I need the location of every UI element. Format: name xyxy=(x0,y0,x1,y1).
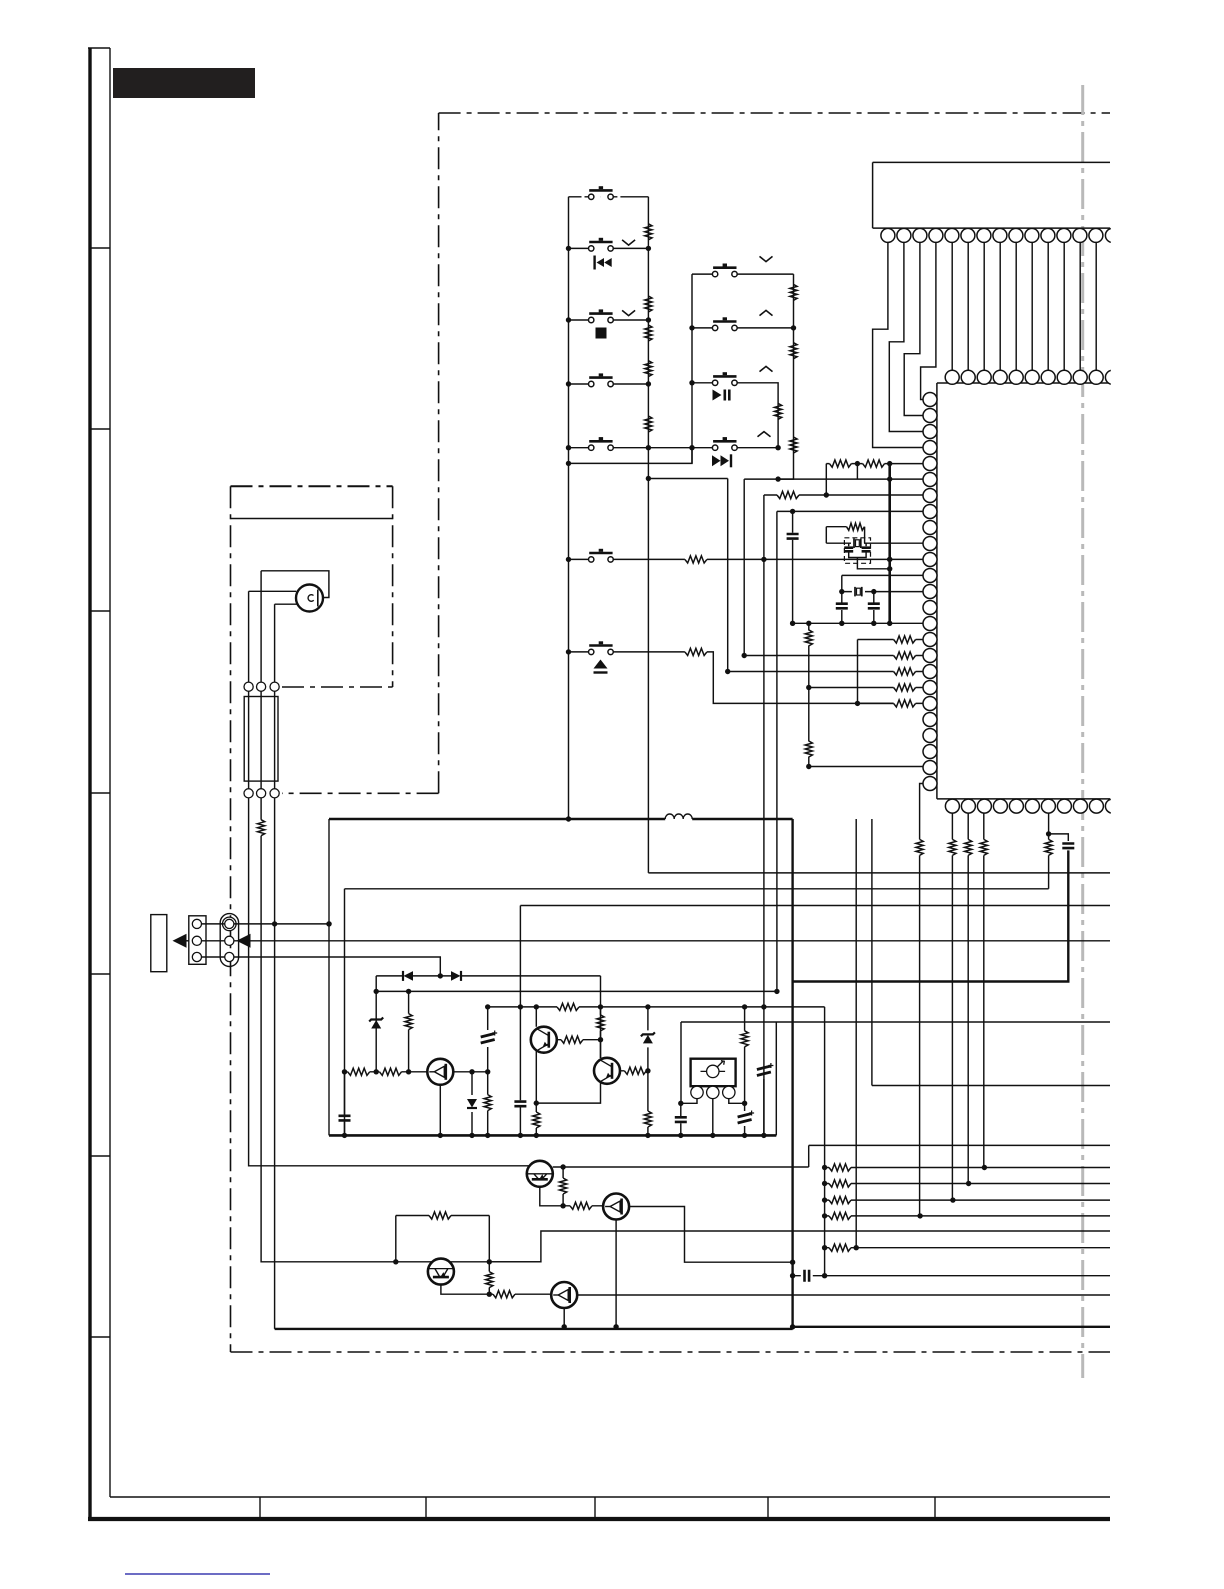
U2 pin 3 xyxy=(913,228,927,242)
ground distribution wire to pin p15 xyxy=(793,622,924,624)
icon prev-track xyxy=(595,256,612,270)
wire U2 pin10 down to IC top pin 6 xyxy=(1031,242,1033,370)
transistor Q5 xyxy=(603,1194,629,1220)
chevron up col2 row2 xyxy=(760,310,773,315)
U1 bottom pin 1 xyxy=(945,799,959,813)
wire col2 node east to IC pin p6 xyxy=(778,478,923,480)
U1 top pin 4 xyxy=(993,370,1007,384)
wire p18 row east of drop xyxy=(728,671,924,673)
node R487 at bus xyxy=(485,1133,490,1138)
front-panel enclosure dash-dot top edge xyxy=(439,112,1110,114)
U1 top pin 1 xyxy=(945,370,959,384)
capacitor C-X2a xyxy=(841,592,843,624)
wire x=871.9 drop from power rail xyxy=(871,819,873,1086)
wire p11 corner down to crystal X2 left xyxy=(841,575,843,591)
node q1 east x472 xyxy=(469,1069,474,1074)
inductor L1 xyxy=(665,814,692,819)
node col2 inner bus jog xyxy=(775,476,780,481)
wire p16 row with corner drop to p20 row xyxy=(858,640,924,704)
CN1b pin 1 outer ring xyxy=(223,917,237,931)
resistor R-487 xyxy=(487,1072,489,1136)
U1 bottom pin 11 (clipped at page edge) xyxy=(1105,799,1119,813)
resistor R-row7 xyxy=(685,648,707,655)
U1 top pin 5 xyxy=(1009,370,1023,384)
node row6 at thick bus xyxy=(887,557,892,562)
wire Q6 emitter down to base row 1294 xyxy=(441,1285,493,1295)
node Q2 emitter junction xyxy=(534,1100,539,1105)
capacitor C-1068 xyxy=(1062,844,1074,849)
U1 left pin 1 xyxy=(923,393,937,407)
node power drop on row1 xyxy=(326,921,331,926)
resistor R-p20 xyxy=(894,700,916,707)
key switch SW6 row wire to IC pin p10 xyxy=(569,558,924,560)
wire U2 pin9 down to IC top pin 5 xyxy=(1015,242,1017,370)
wire CN1 row3 link to diode pair xyxy=(202,957,441,976)
wire U2 pin2 to IC pin3 stair xyxy=(889,242,923,431)
wire Q7 east to margin xyxy=(577,1294,1110,1296)
display connector box U2 xyxy=(873,162,1110,228)
node Q2 base net on x600 xyxy=(598,1037,603,1042)
key switch SW1 xyxy=(589,186,614,199)
tap row 5 resistor to margin xyxy=(825,1247,1110,1249)
wire U1 left pin25 jog down xyxy=(920,784,924,1216)
wire col2 jog west to x=744 drop xyxy=(744,478,778,480)
amp block top border xyxy=(345,888,1049,890)
resistor R-Q3base xyxy=(624,1067,646,1074)
capacitor C-motor-left xyxy=(680,1103,682,1135)
zener ZD1 xyxy=(371,1020,381,1029)
U1 bottom pin 3 xyxy=(977,799,991,813)
resistor R-p16 xyxy=(894,636,916,643)
footer blue link underline xyxy=(125,1573,270,1575)
chevron down col1 row2 xyxy=(622,240,635,245)
wire Q3 base resistor xyxy=(620,1070,648,1072)
node rail x487 xyxy=(485,1004,490,1009)
arrow into jack xyxy=(173,934,187,948)
node R648 at bus xyxy=(645,1133,650,1138)
board-side connector pin 2 xyxy=(257,789,266,798)
capacitor C-520 xyxy=(514,1102,526,1107)
power rail with inductor L1 xyxy=(329,818,793,820)
U1 left pin 3 xyxy=(923,425,937,439)
node C520 at bus xyxy=(518,1133,523,1138)
tap row 2 resistor xyxy=(825,1183,1110,1185)
node rail x536 (Q2 collector) xyxy=(534,1004,539,1009)
bottom title strip thick base xyxy=(88,1517,1110,1521)
crystal X1 line to pin p9 xyxy=(826,542,923,544)
motor box pin 1 xyxy=(691,1086,703,1098)
wire Q7 base resistor xyxy=(515,1293,551,1295)
key switch SW9 row wire xyxy=(692,327,794,329)
U1 top pin 8 xyxy=(1057,370,1071,384)
resistor R-col1-1 xyxy=(645,224,652,240)
oscillator feedback resistor R-osc xyxy=(826,526,846,528)
bottom strip divider 4 xyxy=(767,1497,769,1517)
node col2 row4 right xyxy=(775,445,780,450)
wire p7 line xyxy=(765,494,924,496)
wire Q5 east loop to row 1262 xyxy=(629,1207,793,1263)
node Q1 at bus xyxy=(438,1133,443,1138)
crystal X1 dash box xyxy=(844,538,870,564)
wire Q7 down to ground bus xyxy=(563,1308,565,1327)
node ZD2 at bus xyxy=(469,1133,474,1138)
capacitor C-X2b xyxy=(873,592,875,624)
resistor chain x=808.8 lower resistor xyxy=(808,688,810,767)
U2 pin 13 xyxy=(1073,228,1087,242)
U1 top pin 7 xyxy=(1041,370,1055,384)
node tap5 west xyxy=(822,1245,827,1250)
title block black banner xyxy=(113,68,255,98)
node x=857.5 on p20 row xyxy=(855,701,860,706)
node gnd x=841.8 xyxy=(839,621,844,626)
node cap row west on thick vertical xyxy=(790,1273,795,1278)
resistor R-Q5base xyxy=(570,1202,592,1209)
node tap1 xyxy=(822,1165,827,1170)
tap row 4 resistor xyxy=(825,1215,1110,1217)
CN1b pin 3 xyxy=(225,952,234,961)
tap bus x=824.6 row 1 resistor xyxy=(825,1167,1110,1169)
node col2 row3 left xyxy=(689,380,694,385)
wire Q5 down to ground bus xyxy=(615,1220,617,1327)
wire p20 row east part xyxy=(858,702,924,704)
U1 left pin 4 xyxy=(923,441,937,455)
node Q7 at ground bus xyxy=(562,1324,567,1329)
node on p7 line xyxy=(824,492,829,497)
key switch SW9 xyxy=(712,317,737,330)
resistor R-col1-5 xyxy=(645,416,652,432)
thick bus vertical x=889.7 xyxy=(888,464,891,624)
node left bus at inductor rail xyxy=(566,816,571,821)
front-panel enclosure dash-dot bottom edge xyxy=(231,1351,1111,1353)
U1 top pin 2 xyxy=(961,370,975,384)
bottom title strip top rule xyxy=(110,1496,1110,1498)
node C744 at bus xyxy=(742,1133,747,1138)
wire D2 east corner down xyxy=(600,976,602,1058)
wire jog 1145-1167 xyxy=(808,1145,810,1167)
node col2 left bus row4 xyxy=(689,445,694,450)
motor drive IC box xyxy=(691,1059,736,1087)
U2 pin 10 xyxy=(1025,228,1039,242)
wire mic lead A down to pin xyxy=(260,571,262,682)
key switch SW5 row wire spanning to col2 xyxy=(569,447,779,449)
node col1 row4 left xyxy=(566,381,571,386)
microcontroller IC box U1 xyxy=(937,383,1110,799)
U2 pin 7 xyxy=(977,228,991,242)
key switch SW3 row wire xyxy=(569,319,649,321)
thick wire from C-1068 down and west xyxy=(793,850,1069,981)
crystal X2 xyxy=(855,587,862,597)
resistor R-984 xyxy=(980,839,987,855)
keypad col2 left bus xyxy=(691,274,693,463)
U1 left pin 21 xyxy=(923,713,937,727)
node col1 row7 left xyxy=(566,649,571,654)
U2 pin 12 xyxy=(1057,228,1071,242)
mic connector pin 3 xyxy=(270,682,279,691)
wire keypad drop x=727.7 to p18 row xyxy=(727,479,729,672)
node motor frame at cap row xyxy=(678,1101,683,1106)
zener ZD3 xyxy=(647,1007,649,1071)
CN1b pin 1 xyxy=(225,919,234,928)
resistor R-col2-3 xyxy=(790,437,797,453)
node col1 row2 right xyxy=(646,246,651,251)
U1 left pin 2 xyxy=(923,409,937,423)
key switch SW4 row wire xyxy=(569,383,649,385)
wire p8 corner down (x=776.9 drop) xyxy=(776,511,778,991)
wire mic net3 drop to power bus corner xyxy=(274,798,276,1329)
connector CN1b capsule xyxy=(220,914,238,967)
page frame top stub xyxy=(88,47,110,49)
wire rail east corner down x=824.6 xyxy=(824,1007,826,1276)
supply rail y=1006.9 xyxy=(488,1006,825,1008)
microphone module dash-dot right edge xyxy=(392,486,394,687)
U1 left pin 17 xyxy=(923,649,937,663)
margin line y=1085.5 from x871 drop xyxy=(872,1085,1110,1087)
node y991 x408 xyxy=(406,989,411,994)
resistor R-648 xyxy=(647,1071,649,1136)
resistor R-col2-1 xyxy=(790,284,797,300)
frame section tick 2 xyxy=(90,428,110,430)
wire U2 pin11 down to IC top pin 7 xyxy=(1047,242,1049,370)
margin line y=905.5 with west corner drop xyxy=(520,905,1110,907)
wire mic net1 drop to Q4 row xyxy=(249,798,540,1166)
U1 bottom pin 6 xyxy=(1025,799,1039,813)
resistor R-744 xyxy=(744,1007,746,1103)
resistor R-col2-2 xyxy=(790,343,797,359)
link wire col1-col2 left buses xyxy=(569,448,693,464)
node bus at 559.3 to pin p10 (row6 net) xyxy=(887,557,892,562)
wire CN1 row1 link xyxy=(202,923,330,925)
board-side connector pin 3 xyxy=(270,789,279,798)
key switch SW3 (stop) xyxy=(589,309,614,322)
wire mic terminal C xyxy=(275,603,297,605)
U2 pin 5 xyxy=(945,228,959,242)
frame section tick 7 xyxy=(90,1336,110,1338)
node col1 bus jog xyxy=(646,476,651,481)
wire x600 vertical (D2 net) xyxy=(536,1040,600,1103)
key switch SW2 (prev) xyxy=(589,238,614,251)
node gnd thick bus bottom xyxy=(887,621,892,626)
ground return thick bus y=1326.8 xyxy=(275,1328,793,1330)
wire p5 line (two series resistors) xyxy=(826,463,923,465)
resistor R-408 xyxy=(408,991,410,1071)
resistor R-col1-4 xyxy=(645,361,652,377)
resistor R-600-top xyxy=(600,1007,602,1040)
node tap4 xyxy=(822,1213,827,1218)
wire Q5 base resistor xyxy=(563,1205,603,1207)
output jack rectangle xyxy=(151,915,167,972)
capacitor C-792 upper xyxy=(792,511,794,623)
U2 pin 1 xyxy=(881,228,895,242)
transistor Q1 xyxy=(427,1059,453,1085)
amp block left border xyxy=(344,889,346,1136)
node gnd x=792.6 xyxy=(790,621,795,626)
U1 bottom pin 5 xyxy=(1009,799,1023,813)
crystal X2 line to pin p12 xyxy=(842,591,924,593)
U1 left pin 6 xyxy=(923,473,937,487)
diode pair feed wire xyxy=(376,975,600,977)
resistor R-952 xyxy=(949,839,956,855)
U1 bottom pin 7 xyxy=(1041,799,1055,813)
wire p7 corner down (x=763.9 long drop) xyxy=(763,495,766,1136)
U1 left pin 16 xyxy=(923,633,937,647)
microphone module dash-dot top edge xyxy=(231,485,393,487)
wire U1 bottom pin1 drop xyxy=(951,813,953,1200)
page frame left thick border xyxy=(88,48,91,1520)
motor box pin 3 xyxy=(723,1086,735,1098)
wire p6 stub up to p5 mid node xyxy=(856,464,858,480)
chevron down col1 row3 xyxy=(622,310,635,315)
electrolytic C-487 xyxy=(487,1007,489,1072)
crystal X1 xyxy=(854,538,861,548)
U1 left pin 9 xyxy=(923,521,937,535)
margin line y=873.5 from keypad col1 bus xyxy=(648,872,1110,874)
wire loop west leg xyxy=(395,1216,397,1262)
node base row x563 xyxy=(560,1203,565,1208)
icon eject xyxy=(594,660,608,673)
resistor R-p18 xyxy=(894,668,916,675)
U1 bottom pin 4 xyxy=(993,799,1007,813)
node diode pair center xyxy=(438,973,443,978)
U1 left pin 12 xyxy=(923,569,937,583)
diode D1 (cathode west) xyxy=(404,971,414,981)
margin line y=1145.4 xyxy=(809,1144,1110,1146)
bottom strip divider 3 xyxy=(594,1497,596,1517)
key switch SW10 row wire (play/pause) xyxy=(692,383,778,448)
wire U1 bottom pin2 drop xyxy=(967,813,969,1183)
front-panel enclosure dash-dot left edge upper xyxy=(438,113,440,793)
node tap3 xyxy=(822,1197,827,1202)
resistor R-loop xyxy=(429,1212,451,1219)
wire U2 pin3 to IC pin2 stair xyxy=(904,242,923,415)
frame section tick 3 xyxy=(90,610,110,612)
chevron up col2 row4 xyxy=(758,432,771,437)
wire D1 west corner down xyxy=(375,976,377,1072)
wire motor pin2 down to bus xyxy=(712,1099,714,1136)
wire thick vertical x=792.6 to ground bus xyxy=(791,819,793,1327)
node amp left at base row xyxy=(342,1069,347,1074)
U1 left pin 22 xyxy=(923,729,937,743)
node tap2 xyxy=(822,1181,827,1186)
page frame left inner rule xyxy=(109,48,111,1497)
ground bus of amp block xyxy=(329,1134,776,1137)
U1 bottom pin 2 xyxy=(961,799,975,813)
wire motor pin3 to right node xyxy=(729,1099,745,1104)
wire loop east leg xyxy=(488,1216,490,1262)
ribbon conductor 2 xyxy=(260,691,262,788)
ribbon conductor 1 xyxy=(248,691,250,788)
wire U2 pin1 to IC pin4 stair xyxy=(873,242,924,447)
icon next-track xyxy=(712,454,731,467)
front-panel enclosure dash-dot left edge lower xyxy=(230,486,232,1352)
motor box pin 2 xyxy=(707,1086,719,1098)
node motor right x744 xyxy=(742,1101,747,1106)
node X2 left xyxy=(839,589,844,594)
keypad col1 left bus xyxy=(568,197,570,819)
chevron up col2 row3 xyxy=(760,366,773,371)
wire mic lead C down to pin xyxy=(274,604,276,682)
U1 left pin 24 xyxy=(923,761,937,775)
coupling cap row y=1275.7 xyxy=(793,1275,1110,1277)
resistor R-p5-b xyxy=(863,460,885,467)
U2 pin 11 xyxy=(1041,228,1055,242)
node x1048 split xyxy=(1046,831,1051,836)
board-side connector pin 1 xyxy=(244,789,253,798)
CN1 pin 3 xyxy=(192,952,201,961)
node loop east at row 1262 xyxy=(487,1259,492,1264)
U1 top pin 6 xyxy=(1025,370,1039,384)
node p8 line at x=792.6 xyxy=(790,509,795,514)
wire U2 pin4 to IC pin1 stair xyxy=(921,242,936,399)
key switch SW7 (eject) xyxy=(589,641,614,654)
margin line y=1022 from motor frame xyxy=(681,1021,1110,1023)
wire motor pin1 to left node xyxy=(681,1099,697,1104)
capacitor C-amp-left xyxy=(344,1072,346,1136)
wire U2 pin8 down to IC top pin 4 xyxy=(999,242,1001,370)
resistor R-row6 xyxy=(685,556,707,563)
key switch SW5 xyxy=(589,437,614,450)
wire X1 caps common to bus xyxy=(849,552,890,569)
node p5 line at thick bus top xyxy=(887,461,892,466)
capacitor C-X1a xyxy=(848,543,850,546)
key switch SW8 row wire xyxy=(692,273,794,275)
U1 bottom pin 8 xyxy=(1057,799,1071,813)
wire Q4 row east xyxy=(553,1166,563,1168)
U2 pin 14 xyxy=(1089,228,1103,242)
wire Q1 emitter down to bus xyxy=(439,1085,441,1136)
wire osc right bend xyxy=(864,527,866,544)
wire amp bus riser east end xyxy=(775,1022,777,1135)
page fold dash-dot gray line xyxy=(1081,85,1084,1378)
node Q5 line at thick vertical xyxy=(790,1260,795,1265)
wire U1 bottom pin3 drop xyxy=(983,813,985,1167)
wire p8 line xyxy=(777,510,924,512)
wire p17 row east of drop xyxy=(744,655,923,657)
key switch SW7 row wire (eject) xyxy=(569,652,894,704)
microphone module dash-dot bottom edge xyxy=(282,686,393,688)
U1 left pin 25 xyxy=(923,777,937,791)
frame section tick 5 xyxy=(90,973,110,975)
tap row 3 resistor xyxy=(825,1199,1110,1201)
wire Q2 base resistor xyxy=(557,1039,601,1041)
node drop x=744 on p17 row xyxy=(742,653,747,658)
diode ZD2 xyxy=(471,1072,473,1136)
wire U1 bottom pin7 drop xyxy=(1048,813,1050,834)
node drop x=727.7 on p18 row xyxy=(725,669,730,674)
resistor R-rail xyxy=(557,1003,579,1010)
resistor R-p17 xyxy=(894,652,916,659)
node base row x408 xyxy=(406,1069,411,1074)
resistor R-p7 xyxy=(777,491,799,498)
resistor R-col1-3 xyxy=(645,325,652,341)
node col1 row5 right xyxy=(646,445,651,450)
node col1 row3 left xyxy=(566,317,571,322)
frame section tick 1 xyxy=(90,247,110,249)
wire mic net2 drop with resistor xyxy=(261,798,541,1262)
resistor R-p5-a xyxy=(829,460,851,467)
wire inductor rail west corner down xyxy=(328,819,330,1135)
electrolytic C-763 xyxy=(763,1063,765,1135)
node Q4 east x563 xyxy=(560,1164,565,1169)
node rail x648 xyxy=(645,1004,650,1009)
wire cap branch corner xyxy=(1049,834,1069,841)
wire CN1 row2 link to right margin xyxy=(202,940,1111,942)
U2 pin 8 xyxy=(993,228,1007,242)
node row1 at mic net3 xyxy=(272,921,277,926)
wire p5 west corner down to p7 line xyxy=(825,464,827,495)
wire keypad drop x=744 to p17 row xyxy=(743,479,745,655)
motor symbol inside box xyxy=(701,1061,726,1078)
U1 left pin 13 xyxy=(923,585,937,599)
